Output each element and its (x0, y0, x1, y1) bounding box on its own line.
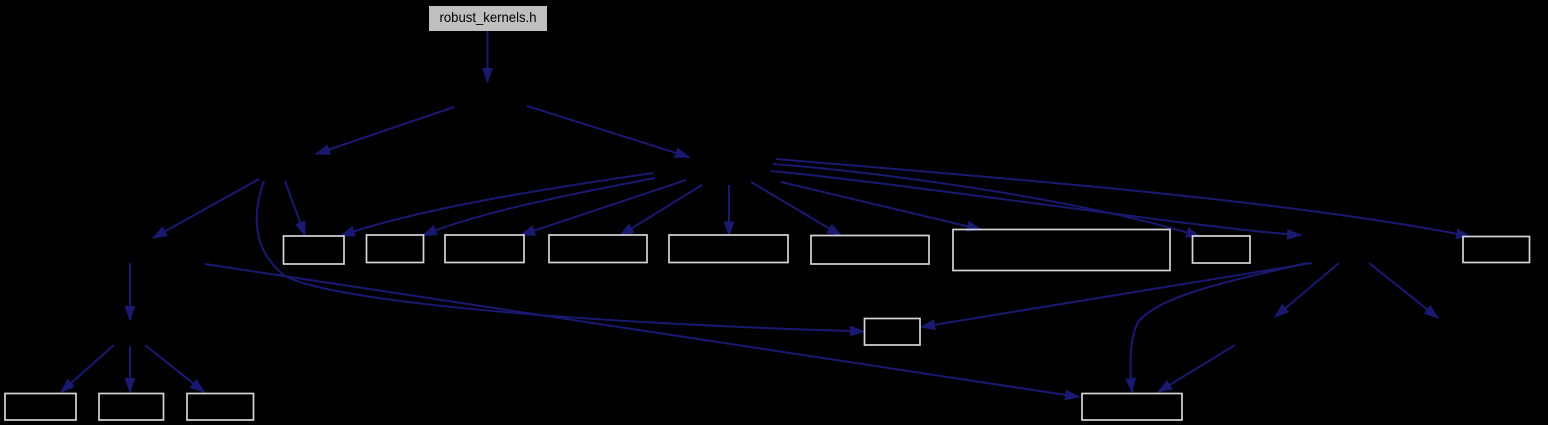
box B9 (1463, 237, 1530, 263)
edge N3 to box B9 (776, 159, 1470, 237)
bottom box BB (1082, 394, 1182, 421)
edge N5 to box L1 (61, 345, 114, 392)
edge N3 to box B1 (341, 173, 653, 236)
edge N2 to box B1 (285, 181, 305, 236)
edge root to hidden node N1 (487, 31, 489, 82)
edge N6 curving to bottom box BB (1130, 263, 1307, 392)
box B6 (811, 236, 929, 265)
edge N3 to box B3 (521, 180, 686, 235)
edge N3 to box B7 (781, 182, 981, 230)
edge N3 to box B5 (728, 185, 730, 236)
edge N2 to hidden node N4 (153, 179, 259, 238)
edge N5 to box L2 (129, 346, 131, 392)
edge N6 to small box SB (921, 263, 1312, 327)
edge N7 to bottom box BB (1158, 345, 1235, 392)
edge N2 curving to small box SB (257, 181, 864, 332)
box L1 (5, 394, 76, 421)
box B4 (549, 235, 647, 263)
edge N1 to hidden node N2 (316, 107, 454, 154)
edge N4 to bottom box BB (205, 264, 1079, 397)
edge N3 to box B6 (751, 182, 841, 236)
edge N4 to hidden node N5 (129, 263, 131, 320)
edge N3 to box B2 (423, 178, 655, 236)
edge N5 to box L3 (145, 345, 204, 392)
box L2 (99, 394, 164, 421)
edge N3 to box B8 (773, 164, 1200, 237)
edge N3 to box B4 (620, 185, 702, 236)
box B2 (367, 235, 424, 263)
box B3 (445, 235, 524, 263)
root node robust_kernels.h (430, 7, 547, 31)
svg-text:robust_kernels.h: robust_kernels.h (440, 10, 537, 25)
edge N1 to hidden node N3 (527, 106, 689, 157)
box B1 (284, 236, 345, 264)
edge N3 to hidden node N6 (771, 171, 1301, 235)
box B7 wide (953, 230, 1170, 271)
edge N6 to hidden node N8 (1369, 263, 1438, 318)
box B5 (669, 235, 788, 263)
small box SB (865, 319, 921, 346)
box B8 (1193, 236, 1251, 263)
box L3 (187, 394, 254, 421)
edge N6 to hidden node N7 (1275, 263, 1339, 317)
